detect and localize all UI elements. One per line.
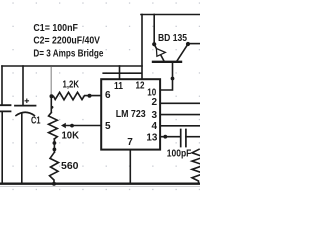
node: collector junction [186, 42, 190, 46]
svg-text:10K: 10K [62, 130, 80, 141]
wire: pin 3 [160, 114, 200, 116]
ground rail [0, 182, 200, 184]
svg-text:5: 5 [105, 121, 111, 132]
svg-text:C2= 2200uF/40V: C2= 2200uF/40V [33, 35, 100, 46]
wire: 100pF right lead [186, 136, 200, 138]
resistor 1,2K (horizontal zigzag) [51, 92, 101, 100]
node: 10K top blob [51, 106, 54, 109]
faint ghost line under ground rail [0, 185, 200, 187]
svg-text:4: 4 [151, 121, 157, 132]
wire: pin 7 to ground [129, 150, 131, 184]
node: 1,2K/10K junction [50, 94, 54, 98]
svg-text:3: 3 [151, 110, 157, 121]
wire: collector to right edge [188, 43, 200, 45]
wire: left input vertical [1, 66, 3, 184]
svg-text:12: 12 [136, 80, 145, 91]
svg-text:1,2K: 1,2K [63, 80, 80, 91]
svg-text:D= 3 Amps Bridge: D= 3 Amps Bridge [33, 48, 103, 59]
svg-text:LM 723: LM 723 [116, 109, 146, 120]
resistor at right edge (vertical zigzag, cut off) [192, 149, 204, 183]
wire: rail2 link [102, 72, 142, 74]
wire: vertical rail to pin 12 [141, 15, 143, 80]
transistor Q1 emitter diagonal upper [154, 44, 156, 48]
svg-text:6: 6 [105, 90, 111, 101]
wire: pin 2 [160, 102, 200, 104]
svg-text:BD 135: BD 135 [158, 33, 187, 44]
transistor Q1 emitter diagonal lower [161, 55, 165, 62]
node: base wire dot [171, 77, 175, 81]
op-amp U1 LM723 box [101, 79, 160, 149]
grid dots [12, 2, 200, 190]
capacitor C2 (left, straight plates) [0, 105, 11, 111]
capacitor 100pF plates [181, 130, 186, 147]
polarity + mark [25, 99, 28, 102]
capacitor C1 top plate [15, 105, 36, 107]
node: pin6 wire dot [88, 94, 92, 98]
svg-text:C1: C1 [31, 116, 41, 127]
svg-text:560: 560 [61, 161, 79, 172]
resistor 560 (vertical zigzag) [50, 152, 59, 184]
svg-text:13: 13 [146, 133, 157, 144]
wiper wire from pin 5 [65, 125, 101, 127]
transistor Q1 collector diagonal [176, 44, 188, 62]
wire: top-left supply rail [2, 65, 142, 67]
node: emitter junction [152, 42, 156, 46]
svg-text:C1= 100nF: C1= 100nF [33, 23, 78, 34]
wiper arrowhead into 10K [61, 123, 66, 128]
wire: pin 11 stub [119, 66, 121, 79]
resistor 10K (vertical zigzag) [49, 113, 58, 140]
wire: C1 branch vertical [22, 66, 23, 184]
node: 10K-560 dots [53, 141, 57, 145]
transistor Q1 base bar [153, 61, 181, 63]
wire: top-right rail [141, 14, 200, 16]
node: wiper wire dot [70, 124, 74, 128]
svg-text:11: 11 [114, 81, 123, 92]
wire: pin 4 [160, 125, 200, 127]
svg-text:2: 2 [151, 97, 157, 108]
node: pin13 dot [163, 135, 167, 139]
svg-text:100pF: 100pF [167, 148, 192, 159]
wire: base down to pin 10 [160, 62, 172, 90]
wire: 10K to 560 [53, 139, 55, 152]
capacitor C1 curved bottom plate [16, 112, 34, 115]
wire: dot down to 10K [50, 96, 52, 112]
svg-text:7: 7 [127, 137, 133, 148]
transistor Q1 emitter wire [153, 15, 155, 45]
transistor Q1 emitter arrowhead [156, 49, 165, 57]
wire: pin 13 to capacitor [160, 136, 181, 138]
node: 560/ground junction [52, 182, 56, 186]
faint chain vertical from rail to 1,2K junction [50, 67, 52, 95]
